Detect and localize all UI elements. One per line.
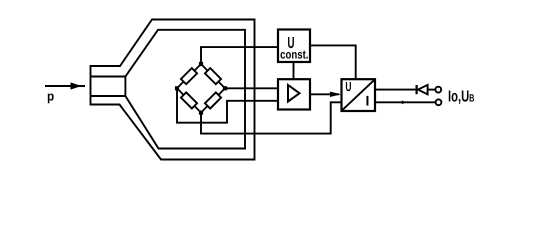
wire bridge top node to U const box [201,47,278,64]
wire bridge right node to amplifier input 1 [225,87,278,89]
resistor bottom-left arm [181,92,197,108]
wire U const box to amplifier [293,62,295,79]
terminal top output [435,87,441,93]
wire U const box to U/I converter [310,45,356,80]
svg-text:U: U [345,79,351,94]
wire amplifier output with arrow into U/I converter [310,92,341,97]
U/I converter [342,79,376,111]
diode cathode bar [416,85,418,94]
svg-text:const.: const. [280,48,308,62]
node right of bridge [223,86,227,90]
wire bridge left node to amplifier input 2 [177,88,278,122]
wire bridge bottom node to output return line [201,102,436,133]
sensor housing outer contour [91,20,255,160]
node top of bridge [199,62,203,66]
resistor top-left arm [181,68,197,84]
voltage source U const [278,30,310,63]
resistor bottom-right arm [205,92,221,108]
wire U/I converter to diode [375,89,416,91]
terminal bottom output [436,99,442,105]
svg-text:p: p [47,89,54,104]
diode triangle [418,85,428,94]
node bottom of bridge [199,111,203,115]
resistor top-right arm [205,68,221,84]
svg-text:I: I [366,92,370,108]
current direction tick on return line [402,100,406,104]
pressure arrow p [45,82,85,89]
diaphragm at end of pressure port bore [124,77,126,97]
amplifier U1 [278,79,310,109]
Wheatstone bridge diamond [177,64,225,113]
wire diode to top terminal [428,89,436,91]
node left of bridge [175,86,179,90]
sensor housing inner contour [91,30,246,149]
